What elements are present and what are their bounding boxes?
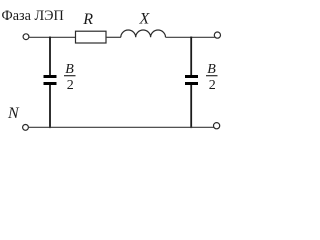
capacitor B/2 right (two plates) bbox=[185, 75, 198, 78]
terminal top-right (phase output) bbox=[214, 32, 220, 38]
wire: right shunt branch upper segment bbox=[190, 37, 192, 75]
wire: left shunt branch lower segment bbox=[49, 85, 51, 127]
node A: junction of top wire and left shunt branch bbox=[49, 37, 51, 39]
svg-text:X: X bbox=[139, 10, 151, 27]
svg-text:2: 2 bbox=[209, 78, 216, 93]
wire: left shunt branch upper segment bbox=[49, 37, 51, 75]
terminal top-left (phase input) bbox=[23, 34, 29, 40]
wire: resistor to inductor bbox=[106, 36, 121, 38]
terminal bottom-right (neutral output) bbox=[214, 123, 220, 129]
node B: junction of top wire and right shunt branch bbox=[190, 37, 192, 39]
terminal bottom-left (neutral input) bbox=[23, 125, 29, 131]
inductor X (3 half-loops) bbox=[121, 30, 166, 37]
fraction bar (left capacitor value B/2) bbox=[64, 75, 76, 77]
wire: right shunt branch lower segment bbox=[190, 85, 192, 127]
node D: junction of bottom wire and right shunt branch bbox=[190, 127, 192, 129]
node C: junction of bottom wire and left shunt branch bbox=[49, 127, 51, 129]
svg-text:R: R bbox=[82, 11, 93, 28]
resistor R bbox=[76, 31, 107, 43]
wire: top-left terminal to resistor bbox=[29, 36, 76, 38]
svg-text:B: B bbox=[207, 62, 216, 77]
fraction bar (right capacitor value B/2) bbox=[206, 75, 218, 77]
wire: inductor to top-right terminal bbox=[166, 36, 215, 38]
svg-text:N: N bbox=[7, 105, 20, 122]
capacitor B/2 left (two plates) bbox=[44, 75, 57, 78]
svg-text:B: B bbox=[65, 62, 74, 77]
wire: bottom neutral conductor bbox=[29, 126, 214, 128]
svg-text:Фаза ЛЭП: Фаза ЛЭП bbox=[2, 8, 64, 24]
svg-text:2: 2 bbox=[67, 78, 74, 93]
